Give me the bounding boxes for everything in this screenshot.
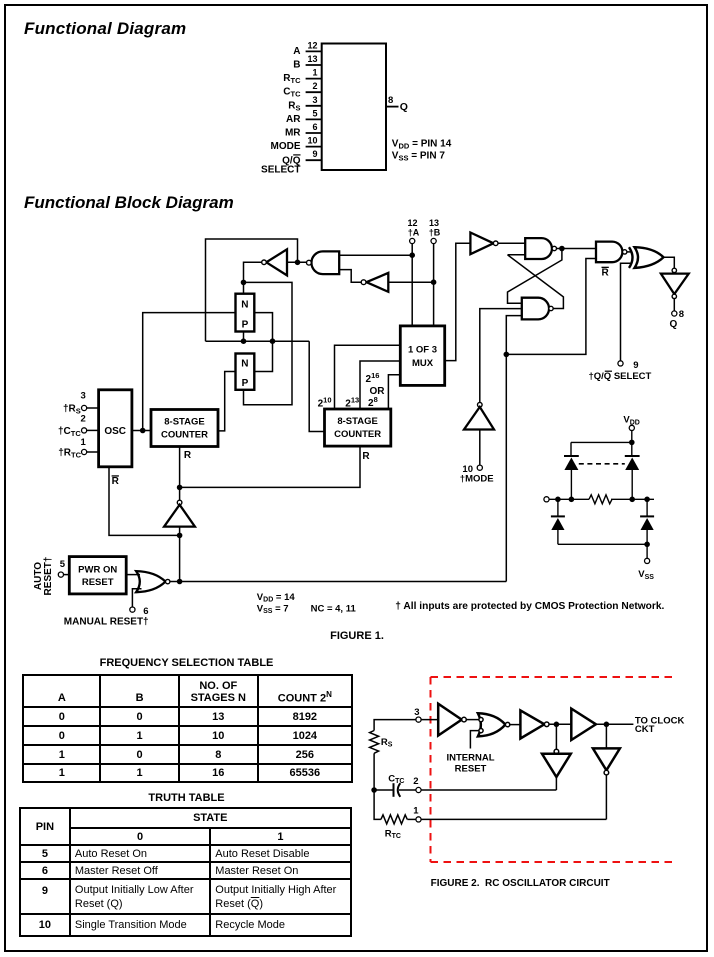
svg-text:2: 2	[81, 414, 86, 425]
svg-text:VSS = PIN 7: VSS = PIN 7	[392, 151, 446, 163]
svg-text:R: R	[112, 476, 120, 487]
wire node down to RTC	[374, 790, 381, 819]
wire pin2 line to first down inverter	[421, 789, 556, 791]
wire H3 to H4	[549, 723, 571, 725]
wire PWR ON RESET output to NOR G5	[126, 574, 140, 576]
1 OF 3 MUX box	[400, 326, 444, 386]
node reset / NAND U2 lower input	[504, 352, 510, 358]
down inverter H6	[593, 748, 620, 770]
wire OSC input CTC stub	[87, 429, 99, 431]
pin 3 terminal fig2	[416, 717, 421, 722]
junction dots	[140, 246, 565, 585]
wire inverter G4 output to NAND U1	[498, 242, 525, 244]
wire internal reset	[470, 731, 479, 749]
wire node down to down-inverter H6	[605, 724, 607, 748]
svg-text:COUNTER: COUNTER	[161, 430, 208, 441]
pin stub A (pin 12)	[306, 50, 322, 52]
svg-text:A: A	[293, 46, 300, 57]
svg-text:MR: MR	[285, 128, 301, 139]
svg-text:†CTC: †CTC	[58, 426, 81, 438]
wire H4 output to clock	[596, 723, 634, 725]
input B terminal	[431, 238, 436, 243]
XOR gate	[635, 247, 664, 268]
wire Q/Qbar select riser	[621, 263, 633, 361]
node at NAND G1 output	[295, 260, 301, 266]
NAND gate G1 (left-pointing)	[311, 251, 339, 274]
pin 3 RS terminal	[82, 405, 87, 410]
node inverter G6 input	[177, 533, 183, 539]
resistor RTC (horizontal zigzag)	[381, 815, 407, 824]
node after H4	[604, 722, 610, 728]
wire VDD rail	[571, 431, 632, 457]
svg-text:12: 12	[407, 218, 417, 228]
svg-text:RTC: RTC	[385, 828, 401, 840]
pin stub MR (pin 6)	[306, 132, 322, 134]
svg-text:1: 1	[81, 437, 87, 448]
svg-text:†Q/Q SELECT: †Q/Q SELECT	[589, 371, 652, 382]
svg-text:8-STAGE: 8-STAGE	[164, 417, 204, 428]
wire inverter G6 input stem	[179, 527, 181, 582]
svg-text:MANUAL RESET†: MANUAL RESET†	[64, 616, 149, 627]
wire latch cross U2 out to U1 input	[508, 255, 564, 309]
bottom rail	[558, 544, 647, 558]
svg-text:5: 5	[312, 108, 317, 118]
diode D1 (upper left)	[564, 455, 579, 457]
transmission gate N/P2	[236, 354, 255, 390]
node after H3	[554, 722, 560, 728]
OSC box	[99, 390, 132, 467]
svg-text:3: 3	[312, 95, 317, 105]
svg-text:CKT: CKT	[635, 724, 655, 735]
svg-text:8: 8	[679, 309, 684, 320]
node counter1 R	[177, 485, 183, 491]
svg-text:2: 2	[413, 776, 418, 787]
wire output inverter to pin 8	[673, 299, 675, 311]
svg-text:VSS = 7: VSS = 7	[257, 603, 289, 615]
wire capacitor to pin 2	[399, 789, 416, 791]
wire top feedback loop	[206, 239, 298, 341]
pin stub RS (pin 3)	[306, 105, 322, 107]
wire XOR output to output inverter	[664, 257, 675, 268]
NOR gate H2	[478, 713, 506, 736]
table title: FREQUENCY SELECTION TABLE	[60, 657, 313, 669]
svg-text:AR: AR	[286, 114, 301, 125]
svg-text:†MODE: †MODE	[460, 474, 494, 485]
node CTC junction	[371, 787, 377, 793]
middle rail with resistor	[549, 498, 589, 500]
8-stage counter 1 box	[151, 410, 218, 447]
NAND U2 (latch bottom, 3-input)	[522, 298, 549, 320]
wire N/P1 top stub	[243, 282, 245, 293]
NOR gate G5	[136, 571, 165, 592]
wire counter2 2^10 tap to MUX	[335, 345, 401, 409]
wire master reset line from NOR G5	[170, 581, 507, 583]
inverter H3	[520, 710, 544, 738]
title: Functional Diagram	[24, 19, 186, 39]
pin 9 terminal	[618, 361, 623, 366]
inverter G6 (up-pointing, reset)	[177, 500, 182, 505]
red dashed boundary	[431, 677, 678, 862]
NAND U1 (latch top)	[525, 238, 552, 259]
svg-text:28: 28	[368, 395, 378, 409]
wire pin3 to RS	[374, 720, 416, 731]
svg-text:10: 10	[307, 136, 317, 146]
inverter G3 (left-pointing)	[366, 273, 388, 292]
svg-text:R: R	[184, 450, 192, 461]
pin 5 terminal	[58, 572, 63, 577]
wire reset node down to master reset line	[505, 354, 507, 581]
svg-text:CTC: CTC	[388, 773, 404, 785]
svg-text:216: 216	[366, 371, 380, 385]
svg-text:B: B	[293, 60, 300, 71]
inverter H4	[571, 709, 596, 740]
resistor RS (vertical zigzag)	[370, 731, 379, 754]
svg-text:6: 6	[312, 122, 317, 132]
pin stub CTC (pin 2)	[306, 91, 322, 93]
svg-text:RTC: RTC	[283, 73, 301, 85]
svg-text:MODE: MODE	[271, 141, 301, 152]
VSS terminal	[645, 558, 650, 563]
wire mode inverter stem to pin 10	[479, 430, 481, 466]
wire pin1 line to second down inverter	[421, 818, 606, 820]
svg-text:CTC: CTC	[283, 87, 301, 99]
svg-text:P: P	[242, 320, 249, 331]
wire clock net down to counter 2 input	[309, 341, 324, 431]
wire NAND U1 output to NAND U3	[557, 248, 597, 250]
svg-text:1: 1	[312, 68, 317, 78]
frequency selection table	[22, 674, 353, 783]
svg-text:Q: Q	[670, 319, 678, 330]
wire inverter G2 output down to node	[244, 262, 262, 282]
pin 1 RTC terminal	[82, 449, 87, 454]
svg-text:9: 9	[312, 149, 317, 159]
pin stub RTC (pin 1)	[306, 78, 322, 80]
wire pin 6 riser to NOR G5	[132, 589, 141, 607]
transmission gate N/P1	[236, 294, 255, 332]
svg-text:6: 6	[143, 606, 148, 617]
wire NAND G1 output to node	[287, 261, 307, 263]
input terminal of protection cell	[544, 497, 549, 502]
svg-text:OSC: OSC	[104, 426, 126, 437]
node master reset line	[177, 579, 183, 585]
wire N/P1 right / N/P2 right riser	[254, 313, 272, 372]
node NAND U1 output	[559, 246, 565, 252]
wire RS to CTC node	[373, 753, 375, 790]
svg-text:RS: RS	[381, 737, 393, 749]
pin 10 terminal	[477, 465, 482, 470]
svg-text:1: 1	[413, 806, 419, 817]
wire pin5 stub to PWR ON RESET	[63, 574, 69, 576]
wire inverter G3 input from B	[388, 281, 433, 283]
wire clock net horizontal	[206, 340, 310, 342]
svg-text:213: 213	[345, 396, 359, 410]
pin stub B (pin 13)	[306, 64, 322, 66]
wire N/P1 left to OSC output	[143, 313, 236, 431]
wire counter1 R stem to inverter G6	[179, 447, 181, 501]
svg-text:3: 3	[81, 390, 86, 401]
svg-text:8: 8	[388, 95, 393, 106]
node OSC output	[140, 428, 146, 434]
svg-text:12: 12	[307, 40, 317, 50]
wire counter2 2^13 tap to MUX	[360, 361, 400, 409]
svg-text:RESET: RESET	[82, 577, 114, 588]
svg-text:†RTC: †RTC	[58, 448, 81, 460]
diode D4 (lower right)	[646, 499, 648, 516]
svg-text:13: 13	[429, 218, 439, 228]
title: Functional Block Diagram	[24, 193, 234, 213]
diode D2 (upper right)	[625, 455, 640, 457]
NAND U3 (output gate R)	[596, 242, 622, 263]
wire reset distribution to counter 2 R	[180, 446, 360, 487]
svg-text:9: 9	[633, 360, 638, 371]
svg-text:FIGURE 1.: FIGURE 1.	[330, 630, 384, 642]
capacitor CTC plates	[393, 783, 395, 797]
wire N/P1 bottom stub	[243, 332, 245, 342]
pin 2 terminal fig2	[416, 787, 421, 792]
wire NAND U3 output to XOR	[627, 251, 631, 253]
resistor (zigzag)	[589, 495, 612, 504]
svg-text:P: P	[242, 378, 249, 389]
wire NAND G1 lower input from inverter G3	[339, 270, 361, 283]
svg-text:NC = 4, 11: NC = 4, 11	[311, 603, 357, 614]
inverter G4 (to latch)	[470, 233, 493, 255]
VDD terminal	[629, 425, 634, 430]
svg-text:N: N	[241, 300, 248, 311]
wire H1 to NOR H2	[466, 719, 478, 721]
svg-text:VDD = PIN 14: VDD = PIN 14	[392, 138, 452, 150]
IC body box	[322, 44, 386, 171]
svg-text:2: 2	[312, 81, 317, 91]
svg-text:RESET†: RESET†	[43, 557, 54, 596]
svg-text:13: 13	[307, 54, 317, 64]
input A terminal	[410, 238, 415, 243]
node B line	[431, 279, 437, 285]
wire NOR H2 to inverter H3	[510, 724, 521, 726]
svg-text:INTERNAL: INTERNAL	[446, 752, 494, 763]
svg-text:COUNTER: COUNTER	[334, 429, 381, 440]
pin 2 CTC terminal	[82, 428, 87, 433]
svg-text:8-STAGE: 8-STAGE	[337, 416, 377, 427]
wire OSC input RS stub	[87, 407, 99, 409]
wire node to capacitor	[374, 789, 393, 791]
wire latch cross U1 out to U2 input	[508, 249, 562, 304]
svg-text:R: R	[602, 267, 610, 278]
svg-text:R: R	[362, 451, 370, 462]
svg-text:210: 210	[318, 396, 332, 410]
svg-text:†A: †A	[408, 228, 420, 238]
svg-text:5: 5	[60, 559, 66, 570]
svg-text:RS: RS	[288, 100, 300, 112]
svg-text:VSS: VSS	[638, 569, 654, 581]
wire inverter H1 input	[421, 719, 438, 721]
table title: TRUTH TABLE	[60, 792, 313, 804]
wire RTC to pin 1	[407, 818, 416, 820]
PWR ON RESET box	[69, 557, 126, 594]
wire NAND G1 upper input from A	[339, 254, 412, 256]
wire OSC Rbar input	[109, 467, 180, 536]
node N/P right riser / clock net	[270, 338, 276, 344]
node N/P1 bottom / clock net	[241, 338, 247, 344]
8-stage counter 2 box	[325, 409, 391, 446]
output inverter (down-pointing)	[672, 268, 676, 272]
svg-text:SELECT: SELECT	[261, 164, 300, 175]
node inverter G2 out / N/P1 top	[241, 280, 247, 286]
pin 1 terminal fig2	[416, 817, 421, 822]
diode D3 (lower left)	[557, 499, 559, 516]
output stub Q (pin 8)	[386, 106, 399, 108]
wire N/P2 left to counter 1 output	[218, 372, 236, 431]
svg-text:†B: †B	[429, 228, 441, 238]
svg-text:MUX: MUX	[412, 358, 434, 369]
wire MUX output up to inverter G4	[445, 243, 471, 360]
svg-text:FIGURE 2. RC OSCILLATOR CIRCU: FIGURE 2. RC OSCILLATOR CIRCUIT	[431, 878, 610, 889]
node A line	[409, 252, 415, 258]
wire OSC input RTC stub	[87, 451, 99, 453]
truth table	[19, 807, 352, 938]
mode inverter G7 (up-pointing)	[478, 402, 483, 407]
wire OSC output to counter 1	[132, 430, 151, 432]
svg-text:PWR ON: PWR ON	[78, 565, 117, 576]
wire input A vertical	[411, 244, 413, 326]
pin 8 terminal	[672, 311, 677, 316]
inverter H1	[438, 704, 462, 736]
svg-text:N: N	[241, 359, 248, 370]
pin stub MODE (pin 10)	[306, 146, 322, 148]
pin stub Q/Qbar SELECT (pin 9)	[306, 159, 322, 161]
inverter G2 (left-pointing)	[266, 249, 287, 275]
down inverter H5	[554, 749, 559, 754]
svg-text:3: 3	[414, 707, 419, 718]
wire NAND U2 middle input from mode inverter	[480, 309, 522, 403]
svg-text:†RS: †RS	[63, 404, 81, 416]
svg-text:† All inputs are protected by: † All inputs are protected by CMOS Prote…	[395, 601, 664, 612]
svg-text:RESET: RESET	[455, 764, 487, 775]
svg-text:Q: Q	[400, 101, 408, 113]
pin 6 terminal	[130, 607, 135, 612]
svg-text:VDD: VDD	[623, 415, 639, 427]
wire node down to down-inverter H5	[555, 724, 557, 749]
svg-text:VDD = 14: VDD = 14	[257, 592, 296, 604]
wire input B vertical	[433, 244, 435, 326]
svg-text:1 OF 3: 1 OF 3	[408, 345, 437, 356]
wire NAND U2 lower input to reset node	[506, 316, 522, 355]
dashed link between upper diodes	[579, 463, 625, 465]
pin stub AR (pin 5)	[306, 118, 322, 120]
wire counter2 2^16/2^8 tap to MUX	[388, 375, 400, 409]
wire reset node to NAND U3 lower input	[506, 259, 596, 355]
wire node to N/P2 bottom loop	[244, 282, 293, 404]
